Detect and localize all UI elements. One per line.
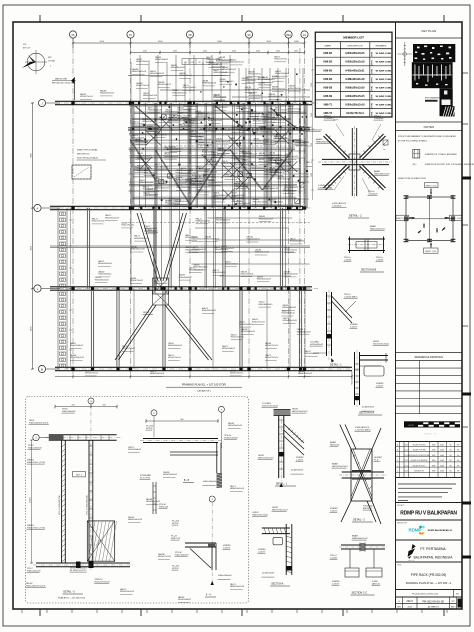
svg-text:H488x300x11x18: H488x300x11x18 — [202, 83, 216, 85]
svg-text:H488x300x11x18: H488x300x11x18 — [131, 249, 145, 251]
svg-text:H100x100x5x8: H100x100x5x8 — [27, 570, 41, 572]
svg-text:W/80 TOS: W/80 TOS — [171, 538, 181, 540]
svg-text:ISSUED FOR REVIEW: ISSUED FOR REVIEW — [411, 460, 428, 462]
svg-text:H200x200x8x12: H200x200x8x12 — [179, 277, 192, 279]
svg-text:HP: HP — [457, 450, 459, 452]
svg-text:H350x350x12x19: H350x350x12x19 — [236, 108, 250, 110]
svg-text:H300x300x10x15: H300x300x10x15 — [136, 61, 150, 63]
svg-text:H300x300x10x15: H300x300x10x15 — [258, 304, 272, 306]
svg-text:M: M — [41, 367, 43, 371]
svg-text:SEE DWG NO.: SEE DWG NO. — [77, 154, 90, 156]
svg-text:4500: 4500 — [232, 50, 236, 52]
svg-text:HP: HP — [457, 445, 459, 447]
svg-text:W/TOS: W/TOS — [172, 523, 179, 525]
svg-text:REMARKS: REMARKS — [376, 44, 387, 47]
svg-text:H250x175x7x11: H250x175x7x11 — [185, 237, 198, 239]
svg-text:RDMP BALIKPAPAN JO: RDMP BALIKPAPAN JO — [428, 529, 453, 532]
svg-text:( AS ABOVE ): ( AS ABOVE ) — [197, 390, 211, 393]
svg-text:H250x175x7x11: H250x175x7x11 — [199, 139, 212, 141]
svg-text:1: 1 — [397, 465, 398, 467]
svg-text:SCALE 1 : 50: SCALE 1 : 50 — [424, 433, 437, 436]
svg-text:H350x350x12x19: H350x350x12x19 — [135, 159, 149, 161]
svg-text:H250x175x7x11: H250x175x7x11 — [274, 59, 287, 61]
svg-text:DETAIL - 3: DETAIL - 3 — [353, 519, 365, 522]
svg-text:REV 0: REV 0 — [451, 606, 456, 608]
svg-text:H300x300x10x15: H300x300x10x15 — [165, 203, 179, 205]
svg-text:4500: 4500 — [294, 50, 298, 52]
svg-text:H350x350x12x19: H350x350x12x19 — [148, 110, 162, 112]
svg-text:HB6-B2: HB6-B2 — [323, 52, 332, 55]
svg-text:H300x300x10x15: H300x300x10x15 — [206, 59, 220, 61]
svg-text:A3 SHEET B: A3 SHEET B — [428, 605, 440, 608]
svg-text:29217: 29217 — [406, 600, 413, 603]
svg-text:07: 07 — [129, 33, 132, 37]
svg-text:H488x300x11x18: H488x300x11x18 — [150, 373, 164, 375]
svg-text:H250x175x7x11: H250x175x7x11 — [121, 225, 134, 227]
svg-text:TITLE: TITLE — [397, 565, 401, 567]
svg-text:H200x200x8x12: H200x200x8x12 — [282, 313, 295, 315]
svg-text:H488x300x11x18: H488x300x11x18 — [352, 538, 368, 540]
svg-text:H300x300x10x15: H300x300x10x15 — [290, 241, 304, 243]
svg-text:PR-052-09-SA-05: PR-052-09-SA-05 — [423, 599, 445, 603]
svg-text:ISSUED FOR IFR: ISSUED FOR IFR — [413, 445, 427, 447]
svg-text:H100x100: H100x100 — [159, 506, 169, 508]
svg-text:H250x175x7x11: H250x175x7x11 — [92, 221, 105, 223]
svg-text:09: 09 — [248, 33, 251, 37]
svg-text:H250x175x7x11: H250x175x7x11 — [230, 373, 243, 375]
svg-text:W/ 9UNF CONN.: W/ 9UNF CONN. — [376, 96, 392, 98]
svg-text:1500: 1500 — [311, 173, 313, 177]
svg-text:H300x300x10x15: H300x300x10x15 — [202, 310, 216, 312]
svg-text:9000: 9000 — [31, 327, 33, 331]
svg-text:H350x350x12x19: H350x350x12x19 — [105, 217, 119, 219]
svg-text:H350x350x12x19: H350x350x12x19 — [196, 169, 210, 171]
svg-text:H300x300x10x15: H300x300x10x15 — [231, 195, 245, 197]
svg-text:(9000): (9000) — [30, 497, 32, 503]
svg-text:(TYP): (TYP) — [372, 52, 374, 58]
svg-text:L-65x65: L-65x65 — [330, 557, 338, 559]
svg-text:L-65x75: L-65x75 — [376, 385, 384, 387]
svg-text:H300x300x10x15: H300x300x10x15 — [345, 52, 365, 55]
svg-text:L-65x65: L-65x65 — [376, 259, 384, 261]
svg-text:H200x200x8x12: H200x200x8x12 — [155, 59, 168, 61]
svg-text:RKC: RKC — [456, 594, 460, 596]
svg-text:H300x300x10x15: H300x300x10x15 — [258, 129, 272, 131]
svg-text:H300x300x10x15: H300x300x10x15 — [259, 161, 273, 163]
svg-text:: FIREPROOF TOTALLY ENCASED: : FIREPROOF TOTALLY ENCASED — [424, 153, 457, 156]
svg-text:: FIREPROOF EXCEPT FOR TOP FL: : FIREPROOF EXCEPT FOR TOP FLANGE SURFAC… — [424, 163, 474, 166]
svg-text:9000: 9000 — [217, 41, 222, 43]
svg-text:30-1-20: 30-1-20 — [404, 450, 409, 452]
svg-text:H350x350x12x19: H350x350x12x19 — [120, 591, 134, 593]
svg-text:H100x100x6x8: H100x100x6x8 — [218, 575, 232, 577]
svg-text:H300x300x10x15: H300x300x10x15 — [98, 263, 112, 265]
svg-text:H300x300x10x15: H300x300x10x15 — [269, 96, 283, 98]
svg-text:H350x350x12x19: H350x350x12x19 — [70, 357, 84, 359]
svg-text:BS: BS — [449, 471, 451, 473]
svg-text:HB6-T1: HB6-T1 — [324, 103, 333, 106]
svg-text:2019: 2019 — [408, 606, 412, 608]
svg-text:K: K — [37, 206, 39, 210]
svg-text:H100x175x7 (-TOS): H100x175x7 (-TOS) — [27, 527, 45, 529]
svg-text:ERECT. #1-05: ERECT. #1-05 — [425, 251, 436, 253]
svg-text:H350x350x12x19: H350x350x12x19 — [204, 128, 218, 130]
svg-text:H300x305x15x15: H300x305x15x15 — [345, 95, 365, 98]
svg-text:H488x300x11x18: H488x300x11x18 — [230, 488, 244, 490]
svg-text:H300x300x10x15: H300x300x10x15 — [241, 331, 255, 333]
svg-text:FRAMING PLAN EL. + 107.100 (TO: FRAMING PLAN EL. + 107.100 (TOP) — [182, 383, 226, 387]
svg-text:L-65x75: L-65x75 — [350, 326, 358, 328]
svg-text:H-607x570x13x21: H-607x570x13x21 — [373, 343, 390, 345]
svg-text:4500: 4500 — [276, 50, 280, 52]
svg-text:29217: 29217 — [404, 445, 408, 447]
svg-text:2: 2 — [397, 471, 398, 473]
svg-text:H350x350x12x19: H350x350x12x19 — [259, 218, 273, 220]
svg-text:RDMP: RDMP — [409, 528, 422, 533]
svg-text:4 - 4: 4 - 4 — [206, 595, 211, 597]
svg-text:(TYP): (TYP) — [372, 60, 374, 66]
svg-text:H607x570x13x21: H607x570x13x21 — [332, 466, 348, 468]
svg-text:AGW: AGW — [440, 444, 444, 447]
svg-text:(PL): (PL) — [413, 164, 417, 166]
svg-text:H250x175x7x11: H250x175x7x11 — [154, 134, 167, 136]
svg-text:AGW: AGW — [440, 449, 444, 452]
svg-text:DIRECTION OF ERECTION: DIRECTION OF ERECTION — [398, 178, 426, 180]
svg-text:H200x200x8x12: H200x200x8x12 — [283, 190, 296, 192]
svg-text:ISSUED FOR IFA: ISSUED FOR IFA — [413, 449, 427, 452]
svg-text:RKC: RKC — [23, 44, 27, 46]
svg-text:H300x300x10x15: H300x300x10x15 — [214, 249, 228, 251]
svg-text:BS: BS — [449, 445, 451, 447]
svg-text:H250x175x7x11: H250x175x7x11 — [242, 162, 255, 164]
svg-text:5: 5 — [221, 410, 223, 412]
svg-text:H350x350x12x19: H350x350x12x19 — [246, 79, 260, 81]
svg-text:PR-0520-0009-CI-DWG-0155: PR-0520-0009-CI-DWG-0155 — [412, 594, 439, 596]
svg-text:H200x200x8x12: H200x200x8x12 — [214, 97, 227, 99]
svg-text:RE-ISSUED FOR APPROVAL: RE-ISSUED FOR APPROVAL — [408, 454, 429, 457]
svg-text:9000: 9000 — [158, 41, 163, 43]
svg-text:H488x300x11x18: H488x300x11x18 — [230, 586, 244, 588]
svg-text:9000: 9000 — [31, 153, 33, 157]
svg-text:H250x175x7x11: H250x175x7x11 — [122, 348, 135, 350]
svg-text:H250x175x7x11: H250x175x7x11 — [252, 321, 265, 323]
svg-text:MATCH LINE: MATCH LINE — [55, 78, 68, 81]
svg-text:H250x175x7x11: H250x175x7x11 — [179, 126, 192, 128]
svg-text:H300x300x10x15: H300x300x10x15 — [168, 345, 182, 347]
svg-text:H250x175x7x11: H250x175x7x11 — [168, 357, 181, 359]
svg-text:BALIKPAPAN, INDONESIA: BALIKPAPAN, INDONESIA — [414, 556, 454, 560]
svg-text:H250x175x7x11: H250x175x7x11 — [168, 201, 181, 203]
svg-text:H250x175x7x11: H250x175x7x11 — [197, 192, 210, 194]
svg-text:H100x100x6x8: H100x100x6x8 — [28, 447, 42, 449]
svg-text:H300x300x10x15: H300x300x10x15 — [257, 279, 271, 281]
svg-text:H350x350x12x19: H350x350x12x19 — [253, 201, 267, 203]
svg-text:H300x300x10x15: H300x300x10x15 — [100, 93, 114, 95]
svg-text:H200x200x8x12: H200x200x8x12 — [247, 239, 260, 241]
svg-text:ISSUED FOR: ISSUED FOR — [397, 523, 408, 525]
svg-text:W/ 9UNF CONN.: W/ 9UNF CONN. — [376, 87, 392, 89]
svg-text:H200x200x8x12: H200x200x8x12 — [132, 124, 145, 126]
svg-text:H300x300x10x15: H300x300x10x15 — [275, 73, 289, 75]
svg-text:06: 06 — [72, 33, 75, 37]
svg-text:H300x300x10x15: H300x300x10x15 — [271, 172, 285, 174]
svg-text:H200x200x8x12: H200x200x8x12 — [269, 155, 282, 157]
svg-text:H350x350x12x19: H350x350x12x19 — [134, 238, 148, 240]
svg-text:STRUCTURE MEMBER TO BE FIREPRO: STRUCTURE MEMBER TO BE FIREPROOFED IS IN… — [398, 135, 457, 138]
svg-text:(TYP): (TYP) — [372, 69, 374, 75]
svg-text:H350x350x12x19: H350x350x12x19 — [305, 353, 319, 355]
svg-text:BL 2PB5-14 (TYP): BL 2PB5-14 (TYP) — [70, 570, 87, 572]
svg-text:H200x200x8x12: H200x200x8x12 — [262, 79, 275, 81]
svg-text:H250x175x7x11: H250x175x7x11 — [284, 249, 297, 251]
svg-text:1: 1 — [50, 66, 52, 68]
svg-text:H200x200x8x12: H200x200x8x12 — [176, 179, 189, 181]
svg-text:H300x300x10x15: H300x300x10x15 — [374, 173, 390, 175]
svg-text:H488x300x11x18: H488x300x11x18 — [190, 136, 204, 138]
svg-text:HP: HP — [457, 465, 459, 467]
svg-text:H350x350x12x19: H350x350x12x19 — [192, 249, 206, 251]
svg-text:DETAIL - 5: DETAIL - 5 — [64, 591, 76, 594]
svg-text:L-75x75x6 (BRC): L-75x75x6 (BRC) — [355, 429, 371, 431]
svg-text:NOTES: NOTES — [424, 125, 434, 129]
svg-text:H-607x570x13x21: H-607x570x13x21 — [262, 405, 279, 407]
svg-text:SECTION A: SECTION A — [271, 583, 284, 586]
svg-text:H250x175x7x11: H250x175x7x11 — [170, 148, 183, 150]
svg-text:H100x100x6x8: H100x100x6x8 — [62, 411, 76, 413]
svg-text:AGW: AGW — [440, 464, 444, 467]
svg-text:H250x175x7x11: H250x175x7x11 — [285, 156, 298, 158]
svg-text:L-65x75: L-65x75 — [330, 510, 338, 512]
svg-text:H300x300x10x15: H300x300x10x15 — [298, 373, 312, 375]
svg-text:H200x200x8x12: H200x200x8x12 — [135, 141, 148, 143]
svg-text:H350x350x12x19: H350x350x12x19 — [235, 184, 249, 186]
svg-text:H488x300x11x18: H488x300x11x18 — [128, 519, 142, 521]
svg-text:H300x300x10x15: H300x300x10x15 — [254, 141, 268, 143]
svg-text:REFERENCE DRAWINGS: REFERENCE DRAWINGS — [415, 356, 444, 359]
svg-text:2PCL-5 H300x300 (15B): 2PCL-5 H300x300 (15B) — [59, 495, 61, 515]
svg-text:H350x350x12x19: H350x350x12x19 — [345, 61, 365, 64]
svg-text:H300x300x10x15: H300x300x10x15 — [282, 307, 296, 309]
svg-text:H200x200x8x12: H200x200x8x12 — [128, 449, 141, 451]
svg-text:1500: 1500 — [311, 113, 313, 117]
svg-text:H300x300x10x15: H300x300x10x15 — [275, 166, 289, 168]
svg-text:H488x300x11x18: H488x300x11x18 — [316, 141, 332, 143]
svg-text:W/ 9UNF CONN.: W/ 9UNF CONN. — [376, 62, 392, 64]
svg-text:W/ 9UNF CONN.: W/ 9UNF CONN. — [376, 53, 392, 55]
svg-text:(2) M24 BOLT: (2) M24 BOLT — [362, 407, 375, 409]
svg-text:H250x175x7x11: H250x175x7x11 — [231, 337, 244, 339]
svg-text:H350x350x12x19: H350x350x12x19 — [150, 73, 164, 75]
svg-text:DETAIL - 1: DETAIL - 1 — [330, 364, 342, 367]
svg-text:H488x300x11x18: H488x300x11x18 — [164, 156, 178, 158]
svg-text:( L-65x65 ): ( L-65x65 ) — [324, 118, 334, 120]
svg-text:(TYP): (TYP) — [372, 77, 374, 83]
svg-text:H250x175x7x11: H250x175x7x11 — [288, 88, 301, 90]
svg-text:1: 1 — [384, 145, 386, 147]
svg-text:H200x200x8x12: H200x200x8x12 — [144, 172, 157, 174]
svg-text:W/ 9UNF CONN.: W/ 9UNF CONN. — [376, 104, 392, 106]
svg-text:H488x300x11x18: H488x300x11x18 — [295, 142, 309, 144]
svg-text:PL-8: PL-8 — [374, 459, 379, 461]
svg-text:4500: 4500 — [203, 50, 207, 52]
svg-text:ERECT. #1-05: ERECT. #1-05 — [426, 185, 437, 187]
svg-text:H300x300x10x15: H300x300x10x15 — [95, 279, 109, 281]
svg-text:H200x200x8x12: H200x200x8x12 — [239, 324, 252, 326]
svg-text:SECTION B-B: SECTION B-B — [361, 269, 377, 272]
svg-text:H488x300x11x18: H488x300x11x18 — [297, 331, 311, 333]
svg-text:L-65x65 (BRC): L-65x65 (BRC) — [344, 296, 358, 298]
svg-text:H350x350x12x19: H350x350x12x19 — [155, 187, 169, 189]
svg-text:H300x300x10x15: H300x300x10x15 — [284, 274, 298, 276]
svg-text:H250x175x7x11: H250x175x7x11 — [177, 115, 190, 117]
svg-text:L-65x75: L-65x75 — [258, 551, 266, 553]
svg-text:SEE DWG NO. GR-05-17B: SEE DWG NO. GR-05-17B — [52, 83, 75, 85]
svg-text:H350x350x12x19: H350x350x12x19 — [172, 92, 186, 94]
svg-text:H350x350x12x19: H350x350x12x19 — [274, 138, 288, 140]
svg-text:H250x175x7x11: H250x175x7x11 — [275, 109, 288, 111]
svg-text:H250x175x7x11: H250x175x7x11 — [236, 164, 249, 166]
svg-text:H250x175x7x11: H250x175x7x11 — [136, 85, 149, 87]
svg-text:FRAMING PLAN AT EL. + 107.100: FRAMING PLAN AT EL. + 107.100 - 2 — [406, 581, 452, 585]
svg-text:0 1 2: 0 1 2 — [409, 425, 415, 427]
svg-text:H200x200x8x12: H200x200x8x12 — [222, 348, 235, 350]
svg-text:J: J — [41, 101, 43, 105]
svg-text:SECTION A-A: SECTION A-A — [359, 412, 375, 415]
svg-text:H300x300x10x15: H300x300x10x15 — [183, 106, 197, 108]
svg-text:DET. 5: DET. 5 — [76, 475, 83, 477]
svg-text:H300x300x10x15: H300x300x10x15 — [230, 62, 244, 64]
svg-text:H488x300x11x18: H488x300x11x18 — [134, 169, 148, 171]
svg-text:H250x175x7x11: H250x175x7x11 — [85, 373, 98, 375]
svg-text:H250x175x7x11: H250x175x7x11 — [272, 88, 285, 90]
svg-text:H600x200x11x17: H600x200x11x17 — [370, 228, 386, 230]
svg-text:L-65x65x6: L-65x65x6 — [332, 205, 342, 207]
svg-text:REV: REV — [397, 606, 401, 608]
svg-text:BS: BS — [449, 460, 451, 462]
svg-text:BS: BS — [449, 450, 451, 452]
svg-text:HP: HP — [457, 471, 459, 473]
svg-text:H350x350x12x19: H350x350x12x19 — [231, 155, 245, 157]
svg-text:H250x175x7x11: H250x175x7x11 — [248, 74, 261, 76]
svg-text:11-9-20: 11-9-20 — [404, 465, 409, 467]
svg-text:09A: 09A — [286, 33, 291, 37]
svg-text:B - B: B - B — [184, 480, 190, 482]
svg-text:H488x300x11x18: H488x300x11x18 — [211, 154, 225, 156]
svg-text:H200x200x8x12: H200x200x8x12 — [270, 202, 283, 204]
svg-text:(TYP): (TYP) — [372, 103, 374, 109]
svg-text:H488x300x11x18: H488x300x11x18 — [213, 72, 227, 74]
svg-text:H200x200x8x12: H200x200x8x12 — [70, 345, 83, 347]
svg-text:H200x200x8x12: H200x200x8x12 — [184, 122, 197, 124]
svg-text:08: 08 — [189, 33, 192, 37]
svg-text:RKC: RKC — [48, 57, 53, 59]
svg-text:L-65x65: L-65x65 — [344, 259, 352, 261]
svg-text:H607x570x13x21: H607x570x13x21 — [253, 514, 269, 516]
svg-text:BS: BS — [449, 455, 451, 457]
svg-text:H250x175x7x11: H250x175x7x11 — [158, 556, 171, 558]
svg-text:HP: HP — [457, 455, 459, 457]
svg-text:H300x300x10x15: H300x300x10x15 — [214, 195, 228, 197]
svg-text:H350x350x12x19: H350x350x12x19 — [205, 239, 219, 241]
svg-text:2/2: 2/2 — [451, 601, 455, 603]
svg-text:H488x300x11x18: H488x300x11x18 — [225, 176, 239, 178]
svg-text:H350x350x12x19: H350x350x12x19 — [189, 269, 203, 271]
svg-text:DET. 4: DET. 4 — [143, 312, 150, 314]
svg-text:L-65x75: L-65x75 — [223, 547, 231, 549]
svg-text:H350x350x12x19: H350x350x12x19 — [176, 187, 190, 189]
svg-text:4500: 4500 — [173, 50, 177, 52]
svg-text:S: S — [398, 601, 400, 603]
svg-text:ERECT. #1-05: ERECT. #1-05 — [397, 218, 408, 220]
svg-text:DETAIL - 2: DETAIL - 2 — [349, 214, 362, 218]
svg-text:BY THE FOLLOWING SYMBOL.: BY THE FOLLOWING SYMBOL. — [398, 140, 428, 142]
svg-text:RDMP RU V BALIKPAPAN: RDMP RU V BALIKPAPAN — [400, 511, 457, 517]
svg-text:17B: 17B — [191, 62, 194, 64]
svg-text:AGW: AGW — [440, 459, 444, 462]
svg-text:0: 0 — [153, 413, 155, 415]
svg-text:DESCRIPTION: DESCRIPTION — [348, 45, 363, 47]
svg-text:4500: 4500 — [256, 50, 260, 52]
svg-text:H100x100x6x8: H100x100x6x8 — [175, 554, 189, 556]
svg-text:H488x300x11x18: H488x300x11x18 — [255, 252, 269, 254]
svg-text:THIS DRAWING: THIS DRAWING — [425, 96, 439, 99]
svg-text:W/ 9UNF CONN.: W/ 9UNF CONN. — [376, 70, 392, 72]
svg-text:H250x175x7x11: H250x175x7x11 — [203, 177, 216, 179]
svg-text:H100x100x6x8: H100x100x6x8 — [224, 437, 238, 439]
svg-text:H250x175x7x11: H250x175x7x11 — [241, 273, 254, 275]
svg-text:4500: 4500 — [143, 50, 147, 52]
svg-text:H300x300x10x15: H300x300x10x15 — [171, 67, 185, 69]
svg-text:H-350x350x12: H-350x350x12 — [310, 344, 324, 346]
svg-text:H200x200x8x12: H200x200x8x12 — [168, 120, 181, 122]
svg-text:H200x200x8x12: H200x200x8x12 — [213, 272, 226, 274]
svg-text:W/ 9UNF CONN.: W/ 9UNF CONN. — [376, 79, 392, 81]
svg-text:800: 800 — [181, 419, 184, 421]
svg-text:H250x175x7x11: H250x175x7x11 — [177, 109, 190, 111]
svg-text:H300x300x10x15: H300x300x10x15 — [216, 61, 230, 63]
svg-text:9000: 9000 — [267, 41, 272, 43]
svg-text:9000: 9000 — [100, 41, 105, 43]
svg-text:9000: 9000 — [294, 41, 299, 43]
svg-text:H100x100x6x8: H100x100x6x8 — [203, 481, 217, 483]
svg-text:H200x200x8x12: H200x200x8x12 — [225, 264, 238, 266]
svg-text:H300x300x10x15: H300x300x10x15 — [268, 114, 282, 116]
svg-text:H607x570x13x21: H607x570x13x21 — [292, 411, 308, 413]
svg-text:H350x350x12x19: H350x350x12x19 — [198, 144, 212, 146]
svg-text:H300x300x10x15: H300x300x10x15 — [189, 184, 203, 186]
svg-text:ISSUED FOR IFC: ISSUED FOR IFC — [413, 465, 427, 467]
svg-text:1PCL-5 H300x300 (15B): 1PCL-5 H300x300 (15B) — [87, 495, 89, 515]
svg-text:H588x300x12x20: H588x300x12x20 — [345, 86, 365, 89]
svg-text:H300x300x10x15: H300x300x10x15 — [193, 267, 207, 269]
svg-text:APP-02F: APP-02F — [23, 47, 31, 50]
svg-text:10: 10 — [90, 401, 93, 403]
svg-text:L-65x65x6: L-65x65x6 — [368, 193, 378, 195]
svg-text:BS: BS — [449, 465, 451, 467]
svg-text:H100x100x5x8 (-45T): H100x100x5x8 (-45T) — [26, 585, 46, 587]
svg-text:2-M20 (A325-X): 2-M20 (A325-X) — [318, 186, 333, 189]
svg-text:PT. PERTAMINA: PT. PERTAMINA — [420, 547, 446, 551]
svg-text:H488x300x11x18: H488x300x11x18 — [132, 71, 146, 73]
svg-text:H488x300x11x18: H488x300x11x18 — [268, 159, 282, 161]
svg-text:1500: 1500 — [311, 143, 313, 147]
svg-text:H250x175x7x11: H250x175x7x11 — [145, 231, 158, 233]
svg-text:H350x350x12x19: H350x350x12x19 — [345, 103, 365, 106]
svg-text:244: 244 — [72, 405, 75, 407]
svg-text:H125x125x6.5x9: H125x125x6.5x9 — [95, 581, 111, 583]
svg-text:H350x350x12x19: H350x350x12x19 — [153, 283, 167, 285]
svg-text:(2) M24 BOLT: (2) M24 BOLT — [291, 470, 304, 472]
